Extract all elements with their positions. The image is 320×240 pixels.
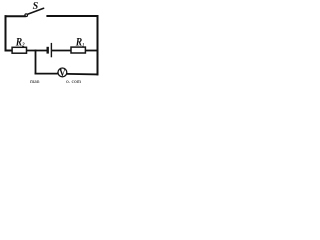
svg-text:R2: R2 <box>15 35 25 48</box>
wire voltmeter branch: to voltmeter <box>36 73 58 75</box>
wire left side <box>5 16 7 50</box>
wire middle: R2 to battery <box>27 50 47 52</box>
wire voltmeter to bottom-right corner <box>67 73 97 76</box>
wire middle: left edge to R2 <box>6 50 13 52</box>
wire top-right segment <box>47 15 97 17</box>
wire right side <box>97 16 99 74</box>
svg-text:mano. com: mano. com <box>30 79 82 84</box>
svg-text:S: S <box>33 1 39 12</box>
wire middle: battery to R1 <box>52 50 71 52</box>
svg-text:V: V <box>59 67 65 79</box>
battery negative plate (short thick) <box>47 47 49 54</box>
resistor R1 box <box>71 47 85 53</box>
svg-text:R1: R1 <box>75 35 84 48</box>
battery positive plate (long thin) <box>50 43 52 57</box>
wire top-left segment <box>6 15 25 17</box>
voltmeter body <box>58 68 67 77</box>
node voltmeter left terminal <box>57 72 59 74</box>
switch S pivot contact <box>25 14 28 17</box>
resistor R2 box <box>12 47 26 53</box>
wire middle: R1 to right side <box>85 50 97 52</box>
switch S blade <box>28 8 44 14</box>
wire voltmeter branch: vertical drop <box>35 51 37 74</box>
